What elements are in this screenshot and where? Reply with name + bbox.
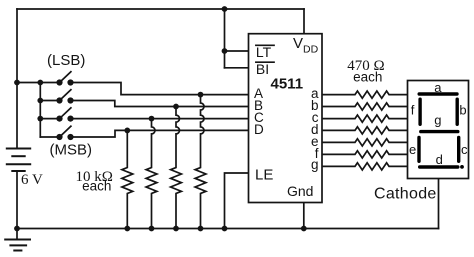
svg-text:e: e — [409, 142, 416, 157]
resistor R3 10k (hops rows C,D) — [171, 107, 182, 229]
wire LE stub and drop — [225, 173, 249, 229]
svg-text:Cathode: Cathode — [374, 186, 437, 203]
svg-text:a: a — [434, 80, 442, 95]
svg-text:f: f — [411, 102, 415, 117]
resistor Re 470 — [322, 139, 408, 146]
svg-text:Gnd: Gnd — [287, 183, 313, 199]
junction node R2 / rail — [149, 226, 155, 232]
wire left supply vertical — [16, 9, 18, 149]
display segment d — [420, 165, 458, 168]
junction node supply / row1 — [14, 80, 20, 86]
junction node battery / rail — [14, 226, 20, 232]
junction node Gnd / rail — [301, 226, 307, 232]
svg-text:4511: 4511 — [271, 76, 304, 93]
wire row1 branch — [17, 82, 60, 84]
svg-text:d: d — [436, 152, 443, 167]
ground symbol — [5, 239, 30, 241]
switch SW2 terminals — [56, 97, 62, 103]
wire LT stub — [225, 50, 249, 52]
svg-text:each: each — [353, 70, 382, 85]
wire top supply rail — [17, 8, 304, 10]
svg-text:D: D — [254, 122, 264, 137]
junction node R3 / rail — [173, 226, 179, 232]
svg-text:BI: BI — [256, 61, 269, 77]
switch SW1 blade (LSB) — [60, 72, 71, 83]
svg-text:LE: LE — [255, 167, 273, 184]
svg-text:c: c — [461, 142, 468, 157]
switch SW4 terminals — [56, 134, 62, 140]
resistor Rb 470 — [322, 103, 408, 110]
svg-text:6 V: 6 V — [21, 172, 43, 188]
battery B1 plates — [7, 148, 30, 150]
display segment c — [457, 137, 460, 161]
junction node bus row1 — [37, 80, 43, 86]
resistor Rg 470 — [322, 163, 408, 170]
junction node LT branch — [222, 48, 228, 54]
display segment g — [421, 130, 458, 133]
junction node R1 / row D — [124, 127, 130, 133]
resistor Ra 470 — [322, 91, 408, 98]
display segment f — [418, 99, 421, 124]
wire sw3 stub — [40, 118, 59, 120]
wire Gnd pin drop — [303, 203, 305, 229]
wire SW4 to pin D — [71, 130, 249, 137]
wire sw2 stub — [40, 100, 59, 102]
switch SW3 terminals — [56, 116, 62, 122]
svg-text:(MSB): (MSB) — [50, 142, 93, 159]
resistor Rd 470 — [322, 127, 408, 134]
display decimal point — [460, 165, 464, 169]
resistor Rc 470 — [322, 115, 408, 122]
display segment e — [417, 137, 420, 161]
resistor R2 10k (hops row D) — [146, 119, 157, 229]
resistor R1 10k — [122, 130, 133, 228]
svg-text:g: g — [311, 157, 319, 172]
junction node R2 / row C — [149, 116, 155, 122]
display segment b — [456, 99, 459, 124]
svg-text:each: each — [82, 179, 111, 194]
wire VDD drop — [303, 9, 305, 34]
IC label LT overline — [256, 44, 274, 46]
junction node R4 / row A — [198, 92, 204, 98]
switch SW4 blade (MSB) — [60, 126, 71, 137]
svg-text:DD: DD — [303, 43, 319, 55]
wire battery bottom to rail and ground — [16, 171, 18, 240]
switch SW3 blade — [60, 108, 71, 119]
resistor R4 10k (hops rows B,C,D) — [195, 95, 206, 229]
svg-text:g: g — [434, 112, 441, 127]
wire cathode drop — [438, 179, 440, 229]
wire bottom ground rail — [17, 228, 439, 230]
wire sw4 stub — [40, 136, 59, 138]
IC label BI overline — [256, 61, 274, 63]
wire SW3 to pin C — [71, 118, 249, 120]
junction node LE / rail — [222, 226, 228, 232]
junction node R4 / rail — [198, 226, 204, 232]
wire switch bus vertical — [39, 83, 41, 138]
op IC U1 4511 box — [249, 34, 323, 203]
switch SW1 terminals — [56, 79, 62, 85]
svg-text:V: V — [293, 35, 303, 52]
display DS1 box — [408, 81, 469, 179]
svg-text:(LSB): (LSB) — [47, 52, 85, 69]
junction node bus row2 — [37, 98, 43, 104]
junction node bus row3 — [37, 116, 43, 122]
resistor Rf 470 — [322, 151, 408, 158]
wire SW2 to pin B — [71, 101, 249, 107]
switch SW2 blade — [60, 90, 71, 101]
junction node top rail / LT-BI feed — [222, 6, 228, 12]
wire LT/BI feed vertical — [224, 9, 226, 68]
wire BI stub — [225, 67, 249, 69]
svg-text:b: b — [459, 102, 466, 117]
wire SW1 to pin A — [71, 83, 249, 95]
display segment a — [419, 92, 457, 95]
junction node R1 / rail — [124, 226, 130, 232]
svg-text:LT: LT — [256, 44, 272, 60]
junction node R3 / row B — [173, 104, 179, 110]
